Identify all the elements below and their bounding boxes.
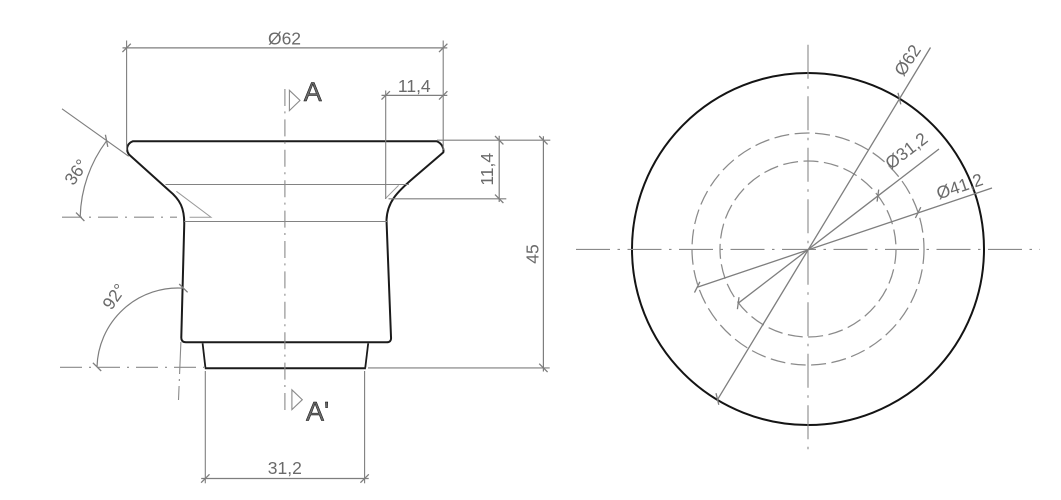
dim 31,2: right extension line [364,371,366,483]
dim 31,2: left extension line [204,371,206,483]
spigot bottom edge [205,367,366,369]
dim 11,4 top: tick right [439,91,447,99]
dim 45: tick bottom [539,364,547,372]
section marker A' triangle [292,390,302,410]
dim 36deg: arc [80,141,106,217]
svg-text:A: A [304,77,322,107]
spigot right side [365,343,368,367]
dim 11,4 right: tick top [495,136,503,144]
dim 92deg: tick bottom [93,363,101,371]
spigot left side [203,343,206,367]
vertical centerline / section cut line A-A' [284,89,286,411]
dim O62: left extension line [126,41,128,151]
svg-text:31,2: 31,2 [268,458,302,478]
dim O62: right extension line [442,41,444,151]
dim 92deg: tick top [179,284,187,292]
right view vertical centerline [807,45,809,455]
section marker A triangle [289,90,300,110]
right wall triangle detail [385,185,398,198]
dashed circle O31,2 [720,161,896,337]
dim 11,4 right: tick bottom [495,195,503,203]
dim O62: tick right [439,44,447,52]
dim 11,4 right: bottom extension line [389,198,507,200]
dim O41,2 radial line [697,188,992,287]
dim O31,2 radial line [738,149,939,303]
svg-text:Ø62: Ø62 [268,29,301,49]
horizontal centerline upper left [62,216,177,218]
part outline: flange + body (section profile) [127,141,443,342]
dim 11,4 top: left extension line [385,91,387,200]
dim O41,2: tick upper [915,207,920,218]
dim 36deg: reference diagonal line [62,109,129,157]
dim 92deg: arc [97,288,183,367]
svg-text:A': A' [306,397,329,427]
dim O62 radial line [717,48,930,400]
dim O31,2: tick upper [877,190,879,202]
dim 36deg: tick bottom [76,213,84,221]
svg-text:45: 45 [523,244,543,263]
dim O31,2: tick lower [737,297,739,309]
dim 36deg: tick top [105,135,107,147]
internal edge line upper [166,184,410,186]
dim O62 radial: tick lower [716,393,719,405]
dashed circle O41,2 [692,133,924,365]
dim O62: dimension line [123,47,448,49]
dim 11,4 right: top extension line [437,139,550,141]
dim 11,4 top: tick left [382,91,390,99]
dim 45: bottom extension line [368,367,550,369]
dim 45: tick top [539,136,547,144]
dim 31,2: dimension line [201,478,369,480]
dim O41,2: tick lower [695,282,700,293]
wall extension dash line (92 deg reference) [179,342,181,400]
outer circle O62 [632,73,984,425]
dim 31,2: tick right [360,474,368,482]
dim O62: tick left [122,44,130,52]
svg-text:11,4: 11,4 [477,153,497,186]
dim 45: dimension line [542,136,544,371]
dim 11,4 top: dimension line [382,94,448,96]
internal edge line lower [184,221,387,223]
dim 11,4 right: dimension line [498,136,500,202]
svg-text:11,4: 11,4 [398,76,431,96]
horizontal centerline lower [60,366,204,368]
left wall triangle detail [176,191,211,217]
dim O62 radial: tick upper [898,93,901,105]
dim 31,2: tick left [201,474,209,482]
right view horizontal centerline [576,248,1040,250]
